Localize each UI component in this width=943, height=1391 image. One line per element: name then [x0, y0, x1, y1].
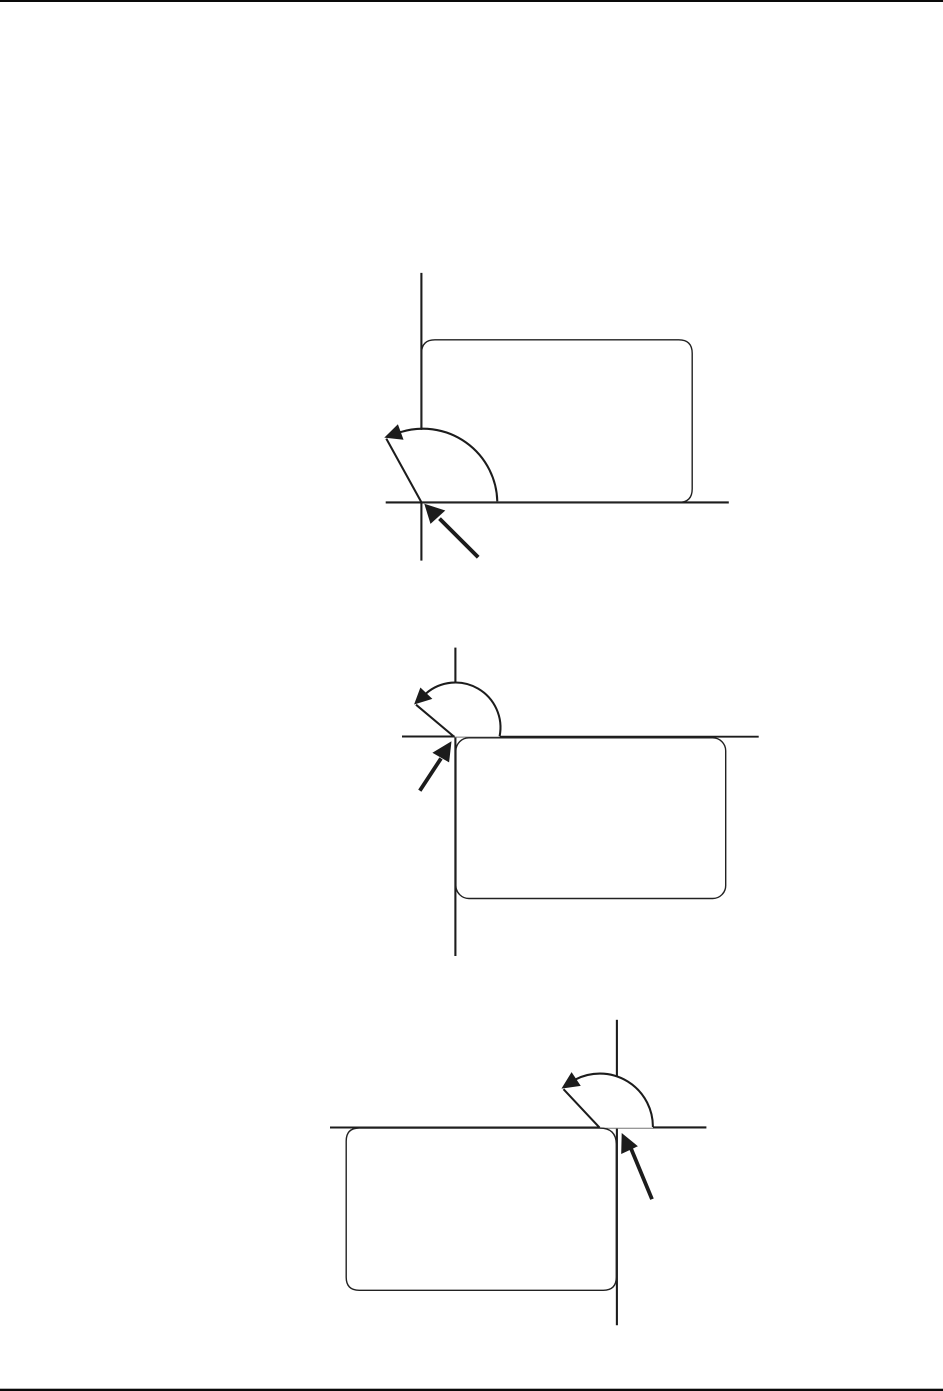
vertical axis line upper segment D3	[616, 1020, 618, 1077]
horizontal axis line D1	[386, 501, 729, 503]
rotation arc D1	[400, 429, 497, 502]
arc arrowhead D1	[385, 425, 403, 439]
bottom page rule	[0, 1389, 943, 1391]
rotation arc D3	[576, 1074, 653, 1127]
media rectangle D2	[456, 738, 726, 899]
rotated media edge line D2	[416, 705, 454, 737]
pointer arrow shaft D3	[631, 1148, 652, 1199]
pointer arrow shaft D2	[420, 758, 441, 790]
initial media-edge radius line (thin) D2	[455, 736, 501, 738]
pointer arrowhead D3	[621, 1133, 638, 1154]
rotation arc D2	[426, 683, 500, 737]
rotated media edge line D3	[564, 1089, 600, 1127]
vertical axis line upper segment D1	[420, 273, 422, 430]
pointer arrowhead D1	[424, 504, 445, 524]
horizontal axis line right segment D3	[653, 1126, 707, 1128]
top page rule	[0, 0, 943, 2]
vertical axis line lower segment D2	[454, 737, 456, 956]
vertical axis line upper segment D2	[454, 648, 456, 682]
horizontal axis line right segment D2	[500, 736, 759, 738]
rotated media edge line D1	[386, 439, 421, 503]
media rectangle D3	[346, 1128, 616, 1290]
arc arrowhead D2	[415, 688, 432, 703]
vertical axis line lower segment D1	[420, 503, 422, 561]
pointer arrowhead D2	[432, 741, 451, 762]
media rectangle D1 (left edge clipped by rotation wedge)	[422, 340, 693, 503]
horizontal axis line left segment D3	[330, 1126, 600, 1128]
arc arrowhead D3	[562, 1073, 580, 1088]
pointer arrow shaft D1	[440, 519, 479, 558]
horizontal axis line left segment D2	[402, 735, 455, 737]
initial media-edge radius line (thin) D3	[600, 1127, 653, 1129]
vertical axis line lower segment D3	[616, 1128, 618, 1325]
